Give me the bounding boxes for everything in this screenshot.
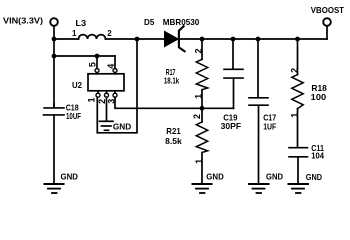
ground R21 bar2 [196,188,208,190]
capacitor C18 plate2 [44,114,65,116]
resistor R18 wire bottom [297,109,299,148]
ground C17 bar3 [257,192,262,194]
ground C17 bar1 [249,183,269,185]
node junction VIN-toprail [52,37,57,42]
svg-text:2: 2 [192,114,202,119]
svg-text:104: 104 [311,150,324,160]
svg-text:VBOOST: VBOOST [311,5,345,15]
wire top rail left segment [54,38,79,40]
capacitor C11 plate1 [289,147,308,149]
svg-text:2: 2 [107,29,112,38]
ground U2 bar1 [100,120,114,122]
wire pin1 down and around to SW node [97,39,137,133]
ground C11 bar3 [296,192,301,194]
svg-text:R21: R21 [166,126,181,136]
capacitor C17 plate2 [249,104,268,106]
resistor R17 wire top [201,39,203,59]
pin circle U2 pin4 [113,69,117,73]
wire U2 pin1 stub [97,91,99,93]
ground left bar1 [45,183,64,185]
resistor R21 wire top [201,108,203,122]
wire U2 pin3 stub [114,91,116,93]
capacitor C11 plate2 [289,156,308,158]
pin circle U2 pin3 [113,93,117,97]
svg-text:GND: GND [266,171,283,181]
svg-text:100: 100 [311,92,327,102]
wire pin2 to ground symbol [106,97,108,120]
node junction feedback divider [200,106,205,111]
svg-text:2: 2 [290,68,300,73]
wire top rail D5 to VBOOST [180,38,328,40]
terminal VBOOST circle [323,18,331,26]
ground left bar3 [52,192,57,194]
wire pin3 feedback to divider [115,97,234,108]
resistor R21 zigzag [196,122,207,153]
node junction VIN-secondrail [52,54,57,59]
ground U2 bar3 [105,129,109,131]
wire C17 to GND [258,105,260,182]
op-amp U2 IC body [88,74,124,91]
svg-text:2: 2 [194,48,204,53]
wire second rail [54,55,115,57]
ground C17 bar2 [253,188,265,190]
pin circle U2 pin1 [96,93,100,97]
diode D5 MBR0530 [165,31,179,46]
svg-text:U2: U2 [72,80,82,90]
resistor R21 wire bottom [201,153,203,183]
node junction pin5 [95,54,100,59]
svg-text:1: 1 [87,97,97,102]
node junction R17 top [200,37,205,42]
resistor R17 wire bottom [201,90,203,109]
pin circle U2 pin2 [105,93,109,97]
svg-text:30PF: 30PF [221,121,242,131]
pin circle U2 pin5 [95,69,99,73]
wire pin5 to box [96,73,98,74]
wire pin4 to box [114,73,116,74]
wire VBOOST vertical [326,26,328,39]
node junction C19 top [231,37,236,42]
svg-text:8.5k: 8.5k [165,136,182,146]
resistor R17 zigzag [196,59,207,89]
capacitor C18 top stub [53,104,55,108]
ground R21 bar1 [193,183,212,185]
wire C18 to GND [53,115,55,183]
wire C19 bottom to feedback [233,78,235,108]
svg-text:1UF: 1UF [263,122,276,132]
svg-text:10UF: 10UF [66,111,81,121]
resistor R18 zigzag [292,75,303,109]
wire U2 pin2 stub [106,91,108,93]
ground C11 bar2 [292,188,304,190]
ground R21 bar3 [200,192,205,194]
node junction SW node on top rail [135,37,140,42]
node junction C17 top [256,37,261,42]
svg-text:GND: GND [113,121,131,131]
capacitor C19 plate2 [224,77,243,79]
wire U2 pin4 stub [114,56,116,69]
wire VIN vertical down to C18 [53,26,55,108]
resistor R18 wire top [297,39,299,75]
node junction R18 top [295,37,300,42]
svg-text:18.1k: 18.1k [164,75,179,85]
ground C11 bar1 [289,183,309,185]
svg-text:MBR0530: MBR0530 [163,17,200,27]
capacitor C19 top stub [232,39,234,69]
wire C11 to GND [297,157,299,183]
svg-text:1: 1 [72,29,77,38]
svg-text:GND: GND [206,171,224,181]
svg-text:VIN(3.3V): VIN(3.3V) [3,15,43,25]
svg-text:GND: GND [306,172,322,182]
svg-text:L3: L3 [75,18,86,28]
terminal VIN circle [50,18,58,26]
ground left bar2 [48,188,60,190]
wire top rail L3 to D5 [106,38,165,40]
capacitor C18 plate1 [44,107,64,109]
svg-text:D5: D5 [144,17,155,27]
capacitor C17 plate1 [249,97,268,99]
capacitor C17 top stub [257,39,259,98]
svg-text:4: 4 [106,64,116,69]
svg-text:5: 5 [88,62,98,67]
inductor L3 [79,35,106,39]
wire U2 pin5 stub [96,56,98,69]
ground U2 bar2 [102,125,112,127]
capacitor C19 plate1 [224,68,243,70]
svg-text:GND: GND [61,171,78,181]
